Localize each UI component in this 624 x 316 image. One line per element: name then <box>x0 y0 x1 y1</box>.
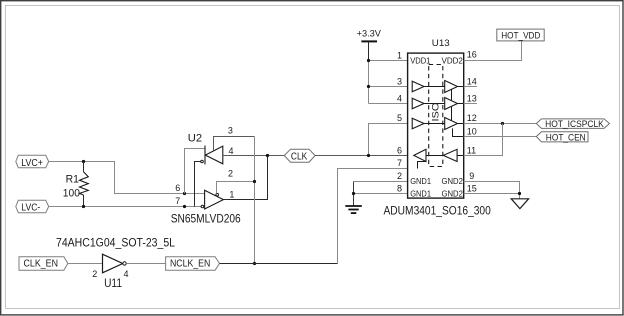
svg-text:GND1: GND1 <box>410 189 431 199</box>
wire U13 pin3 <box>369 86 413 88</box>
svg-text:U11: U11 <box>104 278 122 290</box>
wire U13 pin4 <box>369 103 413 105</box>
wire U13 pin7 enable <box>338 169 418 264</box>
wire U13 pin15 to ground <box>464 194 520 199</box>
svg-text:HOT_VDD: HOT_VDD <box>501 31 540 42</box>
wire channel A out <box>458 86 464 88</box>
wire inter buffer A-B <box>451 89 453 101</box>
node junction rail pin3 <box>367 85 370 88</box>
svg-text:13: 13 <box>467 93 477 103</box>
svg-text:ISO: ISO <box>431 103 441 122</box>
net label HOT_CEN <box>536 132 588 144</box>
wire U13 pin14 stub <box>464 86 477 88</box>
node junction CLK <box>266 154 269 157</box>
wire U13 pin12 to HOT_ICSPCLK <box>464 123 537 125</box>
node junction LVC-/R1 <box>82 205 85 208</box>
wire LVC+ to corner <box>49 162 205 194</box>
wire U13 pin5 to CLK <box>369 124 413 156</box>
svg-text:3: 3 <box>397 77 402 87</box>
svg-text:6: 6 <box>175 183 180 193</box>
wire channel B cross <box>424 103 445 105</box>
svg-text:74AHC1G04_SOT-23_5L: 74AHC1G04_SOT-23_5L <box>56 238 176 250</box>
svg-text:12: 12 <box>467 113 477 123</box>
buffer channel D output <box>414 149 426 161</box>
resistor R1 <box>80 162 89 207</box>
svg-text:1: 1 <box>229 190 234 200</box>
svg-text:11: 11 <box>467 146 476 156</box>
node junction rail/NCLK_EN <box>253 262 256 265</box>
wire channel B out <box>458 103 464 105</box>
svg-text:LVC-: LVC- <box>21 202 40 213</box>
node junction pin2/rail <box>253 180 256 183</box>
wire NCLK_EN to U13 pin7 <box>220 263 338 265</box>
buffer channel D input <box>443 149 457 161</box>
wire branch to receiver apex <box>185 149 206 194</box>
port CLK_EN <box>19 257 68 271</box>
svg-text:+3.3V: +3.3V <box>357 29 382 39</box>
inverter U11 <box>103 254 127 273</box>
svg-text:HOT_ICSPCLK: HOT_ICSPCLK <box>545 119 604 130</box>
buffer channel C output <box>445 118 458 130</box>
node junction pin8/gnd <box>352 192 355 195</box>
wire VE2 tap <box>453 128 464 136</box>
wire U13 pin2 ground <box>354 181 408 183</box>
svg-text:VDD2: VDD2 <box>442 55 464 65</box>
svg-text:2: 2 <box>92 269 97 279</box>
wire U2 pin4 output to CLK <box>223 155 284 157</box>
svg-text:1: 1 <box>397 51 402 61</box>
wire U11 out to NCLK_EN <box>126 263 165 265</box>
wire +3.3V rail <box>368 61 370 104</box>
wire enables rail to NCLK_EN <box>254 137 256 264</box>
isolator U13 body <box>408 53 464 198</box>
svg-text:3: 3 <box>228 125 233 135</box>
wire LVC- to U2 pin7 <box>49 206 202 208</box>
wire channel C out <box>458 123 464 125</box>
svg-text:HOT_CEN: HOT_CEN <box>546 132 586 143</box>
net label HOT_ICSPCLK <box>536 119 609 130</box>
node junction pin7 <box>183 205 186 208</box>
svg-text:CLK: CLK <box>291 151 308 162</box>
net label CLK <box>284 149 315 162</box>
svg-text:4: 4 <box>124 269 129 279</box>
wire VE1 tap <box>418 162 427 169</box>
wire U13 pin8 ground <box>354 193 408 195</box>
svg-text:NCLK_EN: NCLK_EN <box>170 259 210 270</box>
buffer channel A output <box>445 81 458 93</box>
buffer channel B input <box>412 98 424 109</box>
svg-text:5: 5 <box>397 113 402 123</box>
ground GND2 triangle <box>511 199 528 209</box>
svg-text:U2: U2 <box>188 132 202 144</box>
svg-text:7: 7 <box>175 196 180 206</box>
svg-text:GND2: GND2 <box>442 189 464 199</box>
wire channel D in <box>457 155 464 157</box>
isolation barrier dashed <box>429 65 443 167</box>
svg-text:VDD1: VDD1 <box>410 55 431 65</box>
wire U2 pin3 enable <box>214 137 255 151</box>
svg-text:8: 8 <box>397 183 402 193</box>
buffer channel B output <box>445 98 458 110</box>
svg-text:U13: U13 <box>432 37 450 48</box>
svg-text:7: 7 <box>397 158 402 168</box>
wire CLK to U13 pin6 <box>315 155 414 157</box>
svg-text:CLK_EN: CLK_EN <box>24 259 59 270</box>
wire U2 pin2 enable <box>217 182 255 194</box>
wire channel C cross <box>424 123 445 125</box>
wire U13 pin10 to HOT_CEN <box>464 136 537 138</box>
wire U13 pin11 loopback <box>464 124 503 156</box>
svg-text:4: 4 <box>229 146 234 156</box>
wire U13 pin9 to ground <box>464 182 520 194</box>
transceiver U2 receiver triangle <box>201 146 223 165</box>
svg-text:2: 2 <box>228 169 233 179</box>
port LVC- <box>16 200 49 213</box>
svg-text:16: 16 <box>467 50 477 60</box>
svg-text:15: 15 <box>467 183 477 193</box>
node junction pin12/pin11 <box>501 122 504 125</box>
svg-text:2: 2 <box>397 171 402 181</box>
node junction pin9/pin15 <box>518 192 521 195</box>
buffer channel A input <box>412 81 424 92</box>
node junction rail pin1 <box>367 59 370 62</box>
wire inter buffer B-C <box>451 106 453 120</box>
wire receiver enable to pin7 row <box>195 162 201 207</box>
node junction pin6 branch <box>183 192 186 195</box>
svg-text:R1: R1 <box>66 174 79 186</box>
wire U13 pin1 <box>369 60 408 62</box>
svg-text:10: 10 <box>467 126 477 136</box>
buffer channel C input <box>412 118 424 129</box>
node junction LVC+/R1 <box>82 160 85 163</box>
power label HOT_VDD <box>497 29 544 41</box>
wire CLK_EN to U11 <box>68 263 103 265</box>
wire channel D cross <box>426 155 443 157</box>
wire U13 pin16 to HOT_VDD <box>464 41 522 61</box>
svg-text:GND2: GND2 <box>442 176 464 186</box>
port LVC+ <box>16 155 49 169</box>
wire U2 pin1 to CLK junction <box>223 156 267 200</box>
svg-text:GND1: GND1 <box>410 176 431 186</box>
svg-text:14: 14 <box>467 77 477 87</box>
svg-text:6: 6 <box>397 146 402 156</box>
transceiver U2 driver triangle <box>201 190 223 209</box>
svg-text:SN65MLVD206: SN65MLVD206 <box>171 214 241 226</box>
svg-text:4: 4 <box>397 93 402 103</box>
svg-text:LVC+: LVC+ <box>21 158 43 169</box>
ground GND1 <box>345 206 362 213</box>
wire U13 pin13 stub <box>464 103 477 105</box>
svg-text:100: 100 <box>63 188 80 200</box>
svg-text:ADUM3401_SO16_300: ADUM3401_SO16_300 <box>384 205 491 217</box>
net label NCLK_EN <box>166 257 220 271</box>
svg-text:9: 9 <box>469 171 474 181</box>
wire channel A cross <box>424 86 445 88</box>
node junction CLK pin5 <box>367 154 370 157</box>
power +3.3V <box>357 29 382 61</box>
